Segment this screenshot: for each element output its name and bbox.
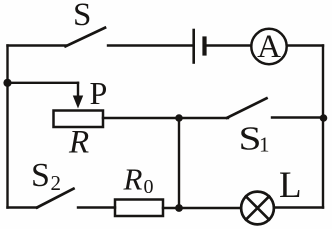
svg-text:R: R (68, 125, 89, 161)
ammeter U1 circle (251, 29, 286, 64)
svg-text:0: 0 (144, 176, 154, 198)
wire lamp to right corner (274, 206, 323, 208)
svg-text:R: R (123, 162, 143, 197)
svg-text:A: A (257, 29, 281, 65)
lamp L circle (241, 192, 274, 225)
wiper arrowhead P (73, 96, 83, 109)
svg-text:1: 1 (259, 133, 270, 157)
svg-text:P: P (90, 75, 108, 111)
lamp L cross (246, 196, 269, 219)
wire left vertical (6, 46, 8, 208)
wire S right contact to battery (108, 44, 192, 46)
node junction rheostat-S1 (175, 114, 183, 122)
svg-text:L: L (279, 165, 302, 206)
wire right vertical (322, 46, 324, 208)
wire S1 right contact (272, 116, 323, 118)
wire node to S1 pivot (179, 117, 228, 119)
wire wiper vertical (77, 83, 79, 96)
battery short plate (202, 39, 206, 54)
wire R0 to lamp (163, 207, 241, 209)
svg-text:S: S (31, 157, 50, 194)
wire ammeter to right corner (287, 44, 323, 46)
switch S2 (37, 189, 74, 208)
wire S2 right contact (78, 206, 115, 208)
wire rheostat right terminal (103, 117, 179, 119)
rheostat R box (54, 111, 104, 128)
svg-text:2: 2 (51, 171, 62, 195)
node junction left (3, 79, 11, 87)
wire bottom-left horizontal (8, 206, 38, 208)
wire top-left horizontal (8, 44, 67, 46)
resistor R0 box (115, 200, 163, 217)
wire middle vertical (178, 118, 180, 208)
switch S1 (227, 98, 267, 118)
node junction R0-lamp (175, 204, 183, 212)
svg-text:S: S (73, 0, 91, 33)
battery long plate (192, 30, 195, 63)
switch S (66, 28, 106, 47)
wire battery to ammeter (207, 44, 252, 46)
wire mid horizontal from left node (8, 82, 79, 84)
node junction S1 right (320, 114, 328, 122)
